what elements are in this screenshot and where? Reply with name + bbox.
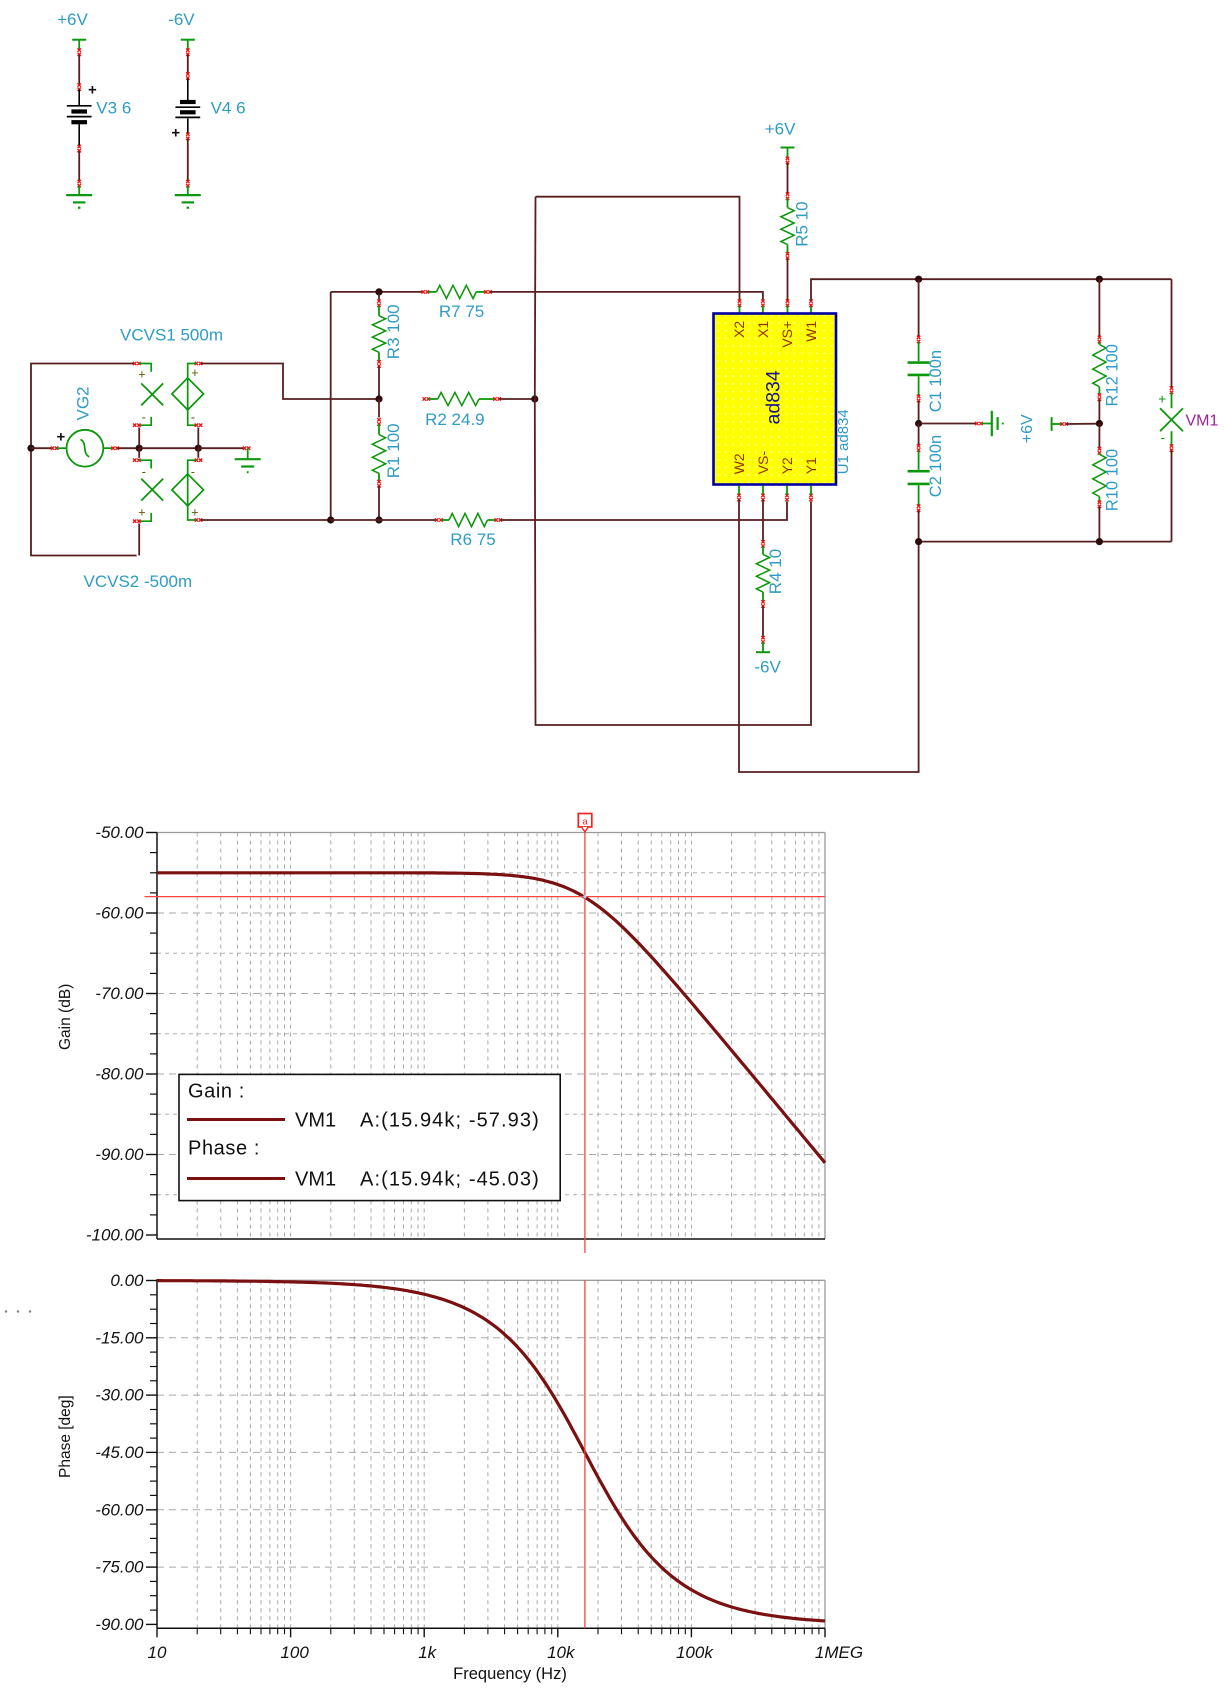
ground stem V4 xyxy=(187,186,189,195)
wire xyxy=(78,151,80,181)
lead xyxy=(1098,387,1100,395)
svg-text:V3 6: V3 6 xyxy=(96,99,131,118)
svg-text:VM1: VM1 xyxy=(295,1169,336,1191)
svg-text:+: + xyxy=(1158,392,1166,407)
capacitor C2 xyxy=(908,471,930,484)
pin label W1 xyxy=(803,321,819,342)
junction VG2 left xyxy=(27,445,34,452)
terminal R7 right xyxy=(484,290,492,293)
wire xyxy=(1098,400,1100,424)
terminal R12 top xyxy=(1098,336,1101,344)
bracket VCVS2 out- xyxy=(188,460,196,474)
svg-text:-80.00: -80.00 xyxy=(95,1065,144,1084)
terminal Y2 xyxy=(785,494,788,502)
label C1 100n xyxy=(927,350,945,412)
wire R7 to X1 xyxy=(490,292,763,300)
pin label X1 xyxy=(755,321,771,338)
wire vertical x=331 xyxy=(330,292,332,520)
bracket VCVS2 out+ xyxy=(188,506,196,520)
wire xyxy=(187,55,189,74)
lead xyxy=(918,342,920,361)
svg-text:R1 100: R1 100 xyxy=(384,423,403,478)
wire xyxy=(118,447,140,449)
lead xyxy=(918,485,920,505)
terminal R5 top xyxy=(786,192,789,200)
svg-text:C1 100n: C1 100n xyxy=(927,350,945,412)
chip name ad834 xyxy=(763,370,785,424)
svg-text:VS-: VS- xyxy=(755,451,771,475)
svg-text:V4 6: V4 6 xyxy=(211,99,246,118)
svg-text:+: + xyxy=(138,368,145,382)
label +6V (V3 rail) xyxy=(57,10,88,29)
VCVS2 diamond xyxy=(172,474,204,506)
ground C1C2 xyxy=(981,411,1003,436)
wire xyxy=(378,294,380,300)
label VCVS2 -500m xyxy=(84,572,193,591)
pin label Y2 xyxy=(779,457,795,474)
wire xyxy=(1098,279,1100,337)
ground V4 xyxy=(175,195,201,208)
lead xyxy=(762,546,764,554)
lead xyxy=(1098,342,1100,345)
svg-text:VM1: VM1 xyxy=(1186,413,1219,430)
wire VCVS2 out to R6 line xyxy=(201,519,329,521)
gain chart axes xyxy=(157,833,825,1240)
svg-text:R7 75: R7 75 xyxy=(439,302,484,321)
svg-text:Y1: Y1 xyxy=(803,457,819,474)
label VM1 xyxy=(1186,413,1219,430)
wire xyxy=(31,447,52,449)
pin lead VS+ xyxy=(787,306,789,315)
wire xyxy=(378,486,380,520)
battery V3 xyxy=(67,106,92,122)
terminal -6V jumper xyxy=(761,636,764,644)
wire R7 line left xyxy=(331,291,423,293)
terminal R6 right xyxy=(495,518,503,521)
lead xyxy=(918,450,920,470)
terminal V3 top xyxy=(78,48,81,56)
label +6V (right) xyxy=(1019,414,1036,443)
svg-text:W2: W2 xyxy=(731,453,747,474)
label C2 100n xyxy=(927,435,945,497)
junction C2 bottom xyxy=(915,538,922,545)
label VCVS1 500m xyxy=(120,326,223,345)
svg-text:Y2: Y2 xyxy=(779,457,795,474)
jumper +6V right xyxy=(1052,417,1062,431)
phase chart border xyxy=(157,1280,825,1628)
svg-text:+6V: +6V xyxy=(1019,414,1036,443)
phase curve VM1 xyxy=(157,1281,825,1621)
svg-text:-75.00: -75.00 xyxy=(95,1558,144,1577)
wire bottom rail xyxy=(919,541,1172,543)
terminal R10 bottom xyxy=(1098,501,1101,509)
wire xyxy=(138,448,140,458)
wire loop bottom to Y1 xyxy=(535,399,811,725)
gain curve VM1 xyxy=(157,873,825,1163)
phase x labels xyxy=(148,1643,864,1662)
gain chart border top/right xyxy=(157,833,825,1240)
terminal VS- xyxy=(761,494,764,502)
terminal ground C xyxy=(975,422,983,425)
svg-text:R4 10: R4 10 xyxy=(766,549,785,594)
label R7 75 xyxy=(439,302,484,321)
axis label Frequency (Hz) xyxy=(453,1665,567,1683)
phase y ticks xyxy=(146,1281,157,1625)
label R3 100 xyxy=(384,304,403,359)
wire xyxy=(378,366,380,399)
terminal X1 xyxy=(761,299,764,307)
lead xyxy=(762,592,764,601)
bracket VCVS2 in+ xyxy=(139,513,151,521)
terminal VG2 left xyxy=(51,447,59,450)
terminal xyxy=(78,145,81,153)
plus sign V4 xyxy=(171,125,180,142)
plus sign V3 xyxy=(88,82,97,99)
svg-text:VCVS1 500m: VCVS1 500m xyxy=(120,326,223,345)
terminal R5 jumper xyxy=(786,157,789,165)
terminal C1 top xyxy=(917,336,920,344)
lead xyxy=(787,199,789,208)
terminal C1 bottom xyxy=(917,395,920,403)
terminal R12 bottom xyxy=(1098,393,1101,401)
terminal R1 bottom xyxy=(377,480,380,488)
terminal VCVS2 in- xyxy=(133,459,141,462)
jumper +6V V3 xyxy=(72,40,86,51)
resistor R10 xyxy=(1093,454,1106,496)
axis label Phase [deg] xyxy=(57,1395,74,1478)
wire xyxy=(1098,424,1100,449)
wire xyxy=(1098,507,1100,544)
battery V3 bottom lead xyxy=(78,124,80,146)
wire xyxy=(762,500,764,541)
terminal xyxy=(186,133,189,141)
svg-text:-6V: -6V xyxy=(168,10,195,29)
battery V4 top lead xyxy=(187,78,189,101)
junction R3 top xyxy=(375,288,382,295)
terminal R4 bottom xyxy=(761,600,764,608)
svg-text:-60.00: -60.00 xyxy=(95,1500,144,1519)
svg-text:R6 75: R6 75 xyxy=(450,530,495,549)
terminal C2 top xyxy=(917,444,920,452)
wire W2 to bottom rail xyxy=(739,500,919,772)
terminal VCVS1 in+ xyxy=(133,362,141,365)
svg-text:-: - xyxy=(142,409,146,424)
wire xyxy=(198,447,244,449)
wire xyxy=(1171,279,1173,387)
svg-text:-6V: -6V xyxy=(754,658,781,677)
bracket VCVS1 out+ xyxy=(188,364,196,378)
lead xyxy=(378,352,380,361)
resistor R5 xyxy=(781,208,794,245)
label R4 10 xyxy=(766,549,785,594)
label R12 100 xyxy=(1104,344,1122,406)
label R1 100 xyxy=(384,423,403,478)
pin label VS+ xyxy=(779,321,795,348)
lead xyxy=(378,306,380,316)
svg-text:Frequency (Hz): Frequency (Hz) xyxy=(453,1665,567,1683)
svg-text:+: + xyxy=(88,82,97,99)
junction C1 top xyxy=(915,276,922,283)
label U1 ad834 xyxy=(835,409,852,474)
wire xyxy=(918,279,920,337)
svg-text:-: - xyxy=(142,464,146,479)
wire xyxy=(138,428,140,447)
svg-text:A:(15.94k; -57.93): A:(15.94k; -57.93) xyxy=(360,1110,540,1132)
terminal W1 xyxy=(809,299,812,307)
svg-text:-50.00: -50.00 xyxy=(95,823,144,842)
gain y labels xyxy=(86,823,144,1245)
svg-text:R5 10: R5 10 xyxy=(792,201,811,246)
terminal R1 top xyxy=(377,418,380,426)
battery V4 bottom lead xyxy=(187,118,189,133)
svg-text:-: - xyxy=(1161,430,1166,445)
wire VCVS1 out to R2 node xyxy=(201,364,376,400)
svg-text:VS+: VS+ xyxy=(779,321,795,348)
svg-text:Gain (dB): Gain (dB) xyxy=(57,984,74,1050)
pin label X2 xyxy=(731,321,747,338)
plus VCVS2 in xyxy=(138,506,145,520)
pin lead X1 xyxy=(762,306,764,315)
junction R12R10 mid xyxy=(1096,420,1103,427)
crosshair vertical phase xyxy=(584,1280,586,1628)
svg-text:-100.00: -100.00 xyxy=(86,1226,144,1245)
svg-text:-45.00: -45.00 xyxy=(95,1443,144,1462)
svg-text:W1: W1 xyxy=(803,321,819,342)
svg-text:X1: X1 xyxy=(755,321,771,338)
pin label W2 xyxy=(731,453,747,474)
svg-text:+: + xyxy=(191,506,198,520)
gain chart grid xyxy=(157,833,825,1240)
terminal xyxy=(186,72,189,80)
junction node B xyxy=(195,445,202,452)
label R2 24.9 xyxy=(425,410,485,429)
svg-text:1MEG: 1MEG xyxy=(815,1643,863,1662)
pin label VS- xyxy=(755,451,771,475)
svg-text:R2 24.9: R2 24.9 xyxy=(425,410,485,429)
resistor R6 xyxy=(441,513,496,526)
plus VCVS1 in xyxy=(138,368,145,382)
wire xyxy=(197,428,199,447)
plus VM1 xyxy=(1158,392,1166,407)
stray dots xyxy=(5,1310,31,1312)
VCVS1 diamond xyxy=(172,378,204,410)
wire VG2 loop bottom-left xyxy=(31,448,137,555)
junction R12 top xyxy=(1096,276,1103,283)
wire xyxy=(762,606,764,637)
label +6V (R5) xyxy=(765,120,796,139)
junction C1C2 mid xyxy=(915,420,922,427)
crosshair marker a xyxy=(578,814,592,832)
wire xyxy=(787,163,789,194)
junction R2/loop xyxy=(531,395,538,402)
junction x331/R6 line xyxy=(327,516,334,523)
terminal xyxy=(78,83,81,91)
ground stem V3 xyxy=(78,186,80,195)
wire xyxy=(787,258,789,301)
label R6 75 xyxy=(450,530,495,549)
terminal V4 gnd xyxy=(186,180,189,188)
svg-text:Phase [deg]: Phase [deg] xyxy=(57,1395,74,1478)
plus sign VG2 xyxy=(57,429,66,446)
plus VCVS2 out xyxy=(191,506,198,520)
terminal +6V jumper xyxy=(1060,422,1068,425)
phase y labels xyxy=(95,1271,144,1634)
lead xyxy=(918,376,920,396)
terminal VCVS2 in+ xyxy=(133,520,141,523)
resistor R12 xyxy=(1093,345,1106,387)
junction node A xyxy=(136,445,143,452)
terminal V3 gnd xyxy=(78,180,81,188)
svg-text:U1 ad834: U1 ad834 xyxy=(835,409,852,474)
ground VG2 xyxy=(235,448,261,472)
source VG2 xyxy=(57,430,113,467)
terminal R4 top xyxy=(761,540,764,548)
wire W1 top rail xyxy=(811,279,1172,301)
svg-text:VG2: VG2 xyxy=(74,386,93,420)
minus VCVS2 out xyxy=(191,464,195,479)
jumper -6V R4 xyxy=(756,642,770,653)
svg-text:C2 100n: C2 100n xyxy=(927,435,945,497)
VCVS2 input X xyxy=(141,479,163,501)
bracket VCVS1 in- xyxy=(139,417,151,425)
pin lead X2 xyxy=(739,306,741,315)
svg-text:-90.00: -90.00 xyxy=(95,1615,144,1634)
svg-text:-30.00: -30.00 xyxy=(95,1386,144,1405)
lead xyxy=(787,245,789,254)
svg-text:A:(15.94k; -45.03): A:(15.94k; -45.03) xyxy=(360,1169,540,1191)
pin lead Y1 xyxy=(810,486,812,495)
minus VM1 xyxy=(1161,430,1166,445)
terminal VCVS1 out+ xyxy=(195,362,203,365)
terminal VCVS1 in- xyxy=(133,424,141,427)
minus VCVS2 in xyxy=(142,464,146,479)
svg-text:a: a xyxy=(582,817,588,828)
svg-text:100: 100 xyxy=(280,1643,309,1662)
svg-text:10k: 10k xyxy=(547,1643,576,1662)
terminal W2 xyxy=(737,494,740,502)
terminal R3 bottom xyxy=(377,360,380,368)
svg-text:VM1: VM1 xyxy=(295,1110,336,1132)
label -6V (V4 rail) xyxy=(168,10,195,29)
svg-text:VCVS2 -500m: VCVS2 -500m xyxy=(84,572,193,591)
svg-text:+6V: +6V xyxy=(57,10,88,29)
bracket VCVS2 in- xyxy=(139,460,151,468)
resistor R3 xyxy=(372,316,385,353)
wire loop top to X2 xyxy=(536,197,740,300)
junction R6 line xyxy=(375,516,382,523)
wire xyxy=(78,55,80,85)
svg-text:+6V: +6V xyxy=(765,120,796,139)
svg-text:-70.00: -70.00 xyxy=(95,984,144,1003)
wire VG2 loop top-left xyxy=(31,364,134,449)
lead xyxy=(378,473,380,481)
phase x ticks xyxy=(157,1628,825,1637)
svg-text:+: + xyxy=(138,506,145,520)
terminal R7 left xyxy=(422,290,430,293)
svg-text:-: - xyxy=(191,409,195,424)
wire xyxy=(139,447,198,449)
terminal R2 right xyxy=(493,397,501,400)
terminal VG2 right xyxy=(111,447,119,450)
svg-text:X2: X2 xyxy=(731,321,747,338)
lead xyxy=(1098,497,1100,502)
battery V3 top lead xyxy=(78,90,80,106)
VCVS1 input X xyxy=(141,383,163,405)
pin lead W2 xyxy=(738,486,740,495)
gain y ticks xyxy=(146,833,157,1236)
jumper -6V V4 xyxy=(181,40,195,51)
label VG2 xyxy=(74,386,93,420)
resistor R1 xyxy=(372,435,385,474)
wire R6 line left xyxy=(331,519,437,521)
wire xyxy=(918,424,920,446)
wire to ground xyxy=(921,423,977,425)
pin lead W1 xyxy=(810,306,812,315)
terminal ground mid xyxy=(243,447,251,450)
terminal V4 top xyxy=(186,48,189,56)
plus VCVS1 out xyxy=(191,366,198,380)
pin label Y1 xyxy=(803,457,819,474)
pin lead Y2 xyxy=(786,486,788,495)
label -6V (R4) xyxy=(754,658,781,677)
terminal Y1 xyxy=(809,494,812,502)
resistor R4 xyxy=(756,554,769,592)
terminal xyxy=(195,424,203,427)
legend box xyxy=(179,1074,560,1200)
terminal R10 top xyxy=(1098,447,1101,455)
terminal C2 bottom xyxy=(917,504,920,512)
junction R2 node xyxy=(375,395,382,402)
svg-text:0.00: 0.00 xyxy=(110,1271,144,1290)
bracket VCVS1 out- xyxy=(188,410,196,425)
svg-text:1k: 1k xyxy=(418,1643,437,1662)
svg-text:+: + xyxy=(171,125,180,142)
svg-text:10: 10 xyxy=(148,1643,167,1662)
ground V3 xyxy=(66,195,92,208)
terminal R2 left xyxy=(423,397,431,400)
crosshair vertical gain xyxy=(584,832,586,1254)
terminal R5 bottom xyxy=(786,252,789,260)
junction R10 bottom xyxy=(1096,538,1103,545)
capacitor C1 xyxy=(908,363,930,375)
phase chart grid xyxy=(157,1280,825,1628)
label R10 100 xyxy=(1104,449,1122,511)
voltmeter VM1 X xyxy=(1160,393,1183,446)
wire xyxy=(918,511,920,544)
resistor R7 xyxy=(428,285,486,298)
terminal VM1 + xyxy=(1170,386,1173,394)
wire xyxy=(187,139,189,181)
svg-text:100k: 100k xyxy=(676,1643,714,1662)
label R5 10 xyxy=(792,201,811,246)
lead xyxy=(378,424,380,434)
wire xyxy=(138,524,140,556)
wire loop vertical upper xyxy=(534,197,537,399)
svg-text:+: + xyxy=(191,366,198,380)
wire xyxy=(1067,423,1097,425)
svg-text:ad834: ad834 xyxy=(763,370,785,424)
minus VCVS1 out xyxy=(191,409,195,424)
minus VCVS1 in xyxy=(142,409,146,424)
label V4 6 xyxy=(211,99,246,118)
wire xyxy=(500,398,535,400)
svg-text:-15.00: -15.00 xyxy=(95,1328,144,1347)
wire xyxy=(197,448,199,458)
lead xyxy=(1098,453,1100,454)
svg-text:-60.00: -60.00 xyxy=(95,904,144,923)
jumper +6V R5 xyxy=(781,148,795,159)
terminal VS+ xyxy=(786,299,789,307)
